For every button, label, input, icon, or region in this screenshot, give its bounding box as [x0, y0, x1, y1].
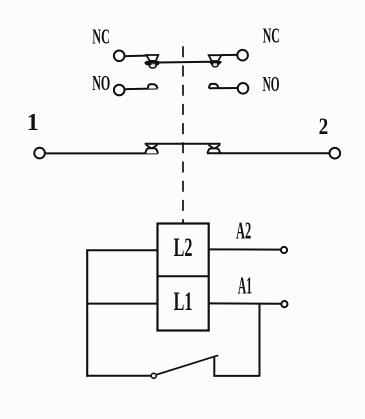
svg-text:NO: NO: [263, 72, 280, 96]
svg-text:L1: L1: [174, 287, 193, 316]
svg-text:NO: NO: [92, 71, 110, 95]
contact NC left (bridge wedge): [144, 55, 160, 68]
wire bottom left: [86, 375, 151, 377]
wire A2 left: [87, 249, 158, 251]
svg-text:A1: A1: [238, 274, 252, 300]
switch blade: [157, 355, 219, 374]
svg-text:L2: L2: [174, 233, 193, 262]
wire NC right top: [221, 54, 237, 56]
wire bottom right: [213, 375, 259, 377]
coil divider: [158, 275, 209, 277]
coil box outline: [158, 224, 209, 331]
wire NC bridge: [158, 61, 212, 64]
wire NO right: [209, 87, 238, 89]
wire main right: [207, 152, 329, 154]
terminal circle A1: [281, 301, 287, 307]
svg-text:1: 1: [27, 110, 39, 136]
contact NC right (bridge wedge): [209, 55, 223, 67]
wire switch stub: [213, 357, 215, 376]
wire NC left top: [124, 55, 146, 58]
wire main left: [46, 152, 158, 154]
wire NO left: [125, 88, 158, 91]
wire A1 right: [209, 302, 281, 304]
wire main bridge bar: [145, 143, 221, 145]
contact NO left (hump): [148, 84, 158, 88]
mechanical linkage dashed line: [182, 46, 184, 223]
switch pivot circle: [151, 373, 156, 378]
contact NO right (hump): [209, 84, 219, 88]
terminal circle A2: [281, 247, 287, 253]
wire left vertical: [86, 249, 88, 376]
contact main right (bowtie): [207, 145, 220, 154]
contact main left (bowtie): [145, 145, 158, 154]
terminal circle NO left: [114, 85, 125, 96]
svg-text:NC: NC: [263, 24, 280, 48]
wire A1 left: [87, 303, 158, 305]
terminal circle NC left: [114, 51, 125, 62]
wire right vertical: [259, 303, 261, 376]
terminal circle NC right: [237, 50, 248, 61]
svg-text:NC: NC: [92, 24, 110, 48]
wire A2 right: [209, 248, 281, 250]
svg-text:A2: A2: [236, 219, 251, 245]
svg-text:2: 2: [319, 114, 329, 139]
terminal circle NO right: [238, 83, 249, 94]
terminal circle 1: [34, 148, 45, 159]
terminal circle 2: [330, 148, 341, 159]
